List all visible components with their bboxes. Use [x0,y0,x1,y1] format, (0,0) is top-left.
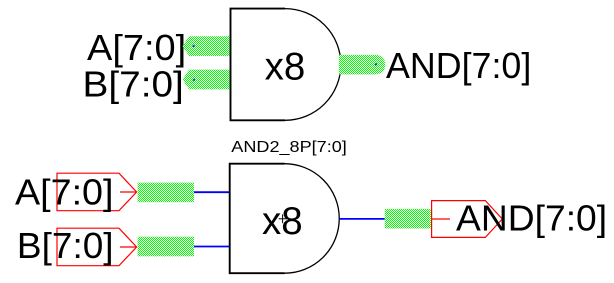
input port tag B (red pentagon flag) [57,228,137,266]
and-gate U1 (top, x8 wide) [231,9,341,121]
input port tag A (red pentagon flag) [57,173,137,211]
and-gate U2 (bottom, x8 wide) [230,164,340,274]
output port tag AND (red pentagon flag) [432,201,503,238]
bus stub output (top, green hatch) [339,55,386,75]
origin marker + (U2) [279,214,287,223]
svg-text:B[7:0]: B[7:0] [83,64,184,105]
wire U2 output [339,218,385,220]
svg-text:AND[7:0]: AND[7:0] [456,197,607,238]
bus stub B (top, green hatch) [183,70,231,90]
svg-text:AND2_8P[7:0]: AND2_8P[7:0] [231,139,346,156]
wire A to gate U2 [194,191,230,193]
svg-text:B[7:0]: B[7:0] [17,225,114,266]
bus stub A (top, green hatch) [183,36,231,56]
bus segment output (bottom, green hatch) [385,209,431,229]
bus segment B (bottom, green hatch) [138,237,194,257]
svg-text:AND[7:0]: AND[7:0] [386,45,531,86]
svg-text:x8: x8 [265,46,306,89]
bus segment A (bottom, green hatch) [138,183,194,203]
wire B to gate U2 [194,246,230,248]
wire endpoint dot A (top) [192,45,194,47]
wire endpoint dot B (top) [193,79,195,81]
wire endpoint dot output (top) [375,63,377,65]
svg-text:A[7:0]: A[7:0] [87,27,186,68]
svg-text:A[7:0]: A[7:0] [15,172,114,213]
